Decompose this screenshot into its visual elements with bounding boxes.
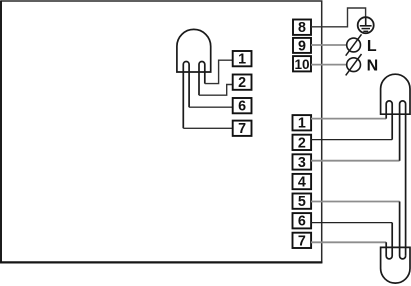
svg-text:2: 2 [298,135,306,151]
wire LA1 pin2 to internal terminal 6 [189,106,233,108]
lamp LA2 outline (top right) [381,74,410,114]
svg-text:6: 6 [298,214,306,230]
output terminal 2 [293,135,312,152]
wire terminal 9 to L [311,44,347,46]
svg-text:1: 1 [298,116,306,132]
wire LA1 pin4 to internal terminal 1 [205,60,233,83]
lamp LA1 pin pair 1-2 (left filament loop) [183,62,189,129]
svg-text:1: 1 [238,52,246,68]
svg-text:N: N [367,58,379,75]
svg-text:2: 2 [238,75,246,91]
wire terminal 10 to N [311,64,347,66]
internal terminal 1 [233,51,252,68]
output terminal 1 [293,115,312,132]
wire terminal 1 to lamp LA2 pin1 [311,118,386,120]
svg-text:4: 4 [298,175,306,191]
wire terminal 7 to lamp LA3 pin1 [311,241,386,243]
output terminal 5 [293,194,312,211]
wire terminal 6 to lamp LA3 pin2 [311,222,392,224]
wire terminal 5 to lamp LA3 pin3 [311,201,400,203]
terminal 10 [293,56,311,72]
svg-text:3: 3 [298,155,306,171]
output terminal 4 [293,174,312,191]
lamp LA3 pin pair 3-4 (right filament loop) [400,202,406,259]
output terminal 3 [293,154,312,171]
earth symbol [358,17,374,33]
wire terminal 3 to lamp LA2 pin3 [311,160,400,162]
internal terminal 6 [233,98,252,115]
lamp LA3 outline (bottom right) [381,247,410,283]
L mains terminal [346,34,362,55]
terminal 9 [293,38,311,55]
svg-text:5: 5 [298,194,306,210]
wire terminal 8 to earth [311,8,366,27]
svg-text:6: 6 [238,99,246,115]
svg-text:7: 7 [298,233,306,249]
lamp LA1 pin pair 3-4 (right filament loop) [199,62,205,96]
svg-text:L: L [367,38,377,55]
wire terminal 2 to lamp LA2 pin2 [311,139,392,141]
lamp LA1 outline [177,29,211,72]
ballast housing outline [0,1,322,263]
wire LA1 pin1 to internal terminal 7 [183,127,232,129]
internal terminal 7 [233,121,252,138]
svg-text:10: 10 [294,57,309,72]
lamp LA2 pin pair 3-4 and series link wire to LA3 pin4 [400,101,406,256]
output terminal 6 [293,213,312,230]
svg-text:9: 9 [298,38,306,54]
output terminal 7 [293,233,312,250]
lamp LA2 pin pair 1-2 (left filament loop) [386,101,392,140]
svg-text:7: 7 [238,121,246,137]
N mains terminal [346,54,362,75]
svg-text:8: 8 [298,20,306,36]
wire LA1 pin3 to internal terminal 2 [199,85,233,96]
terminal 8 [293,20,311,37]
lamp LA3 pin pair 1-2 (left filament loop) [386,223,392,259]
internal terminal 2 [233,75,252,92]
